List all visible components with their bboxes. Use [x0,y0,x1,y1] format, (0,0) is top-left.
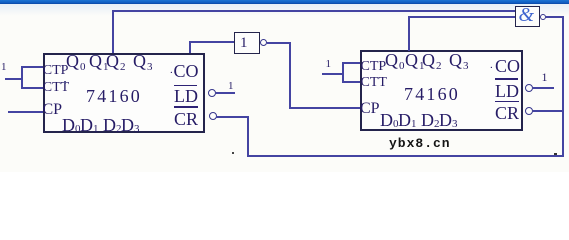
pin CTP U1 [43,64,69,78]
wire [5,78,23,80]
bubble LD U2 [525,84,533,92]
node 1 input label (right chip ENP/ENT) [326,59,332,70]
wire CO region of U1 up to buffer input [189,41,191,53]
wire [342,62,344,83]
pin Q0 U2 [385,51,398,69]
wire bottom rail [247,155,564,157]
buffer gate 1 [234,32,260,54]
wire down to right CP [289,42,291,108]
node 1 on LD of U1 [228,81,234,92]
wire Q2 of U1 up to top rail [112,10,114,53]
pin LD U2 (active low) [495,78,518,80]
title bar [0,0,569,4]
wire [342,62,361,64]
pin D0 U1 [62,116,75,134]
pin Q0 U1 [66,52,79,70]
bubble LD U1 [208,89,216,97]
wire [322,73,343,75]
wire buffer out [267,42,291,44]
wire [342,81,361,83]
pin CR U1 (active low) [174,106,198,108]
wire LD U2 stub [533,87,554,89]
pin CR U2 (active low) [495,101,519,103]
stray dot artifacts [232,152,234,154]
pin CP U2 [360,101,380,117]
pin Q1 U1 [89,52,102,70]
watermark ybx8.cn [389,137,451,150]
node 1 input label (left chip ENP/ENT) [1,62,7,73]
wire Q1 of U2 up to AND gate input 2 [408,16,410,51]
pin CO U2 [495,57,520,75]
wire [408,16,516,18]
pin CO U1 [174,62,199,80]
wire top rail to AND gate input 1 [112,10,515,12]
node 1 on LD of U2 [542,71,548,83]
wire [247,116,249,157]
pin D3 U1 [121,116,134,134]
bubble NAND output [540,14,546,20]
IC U1 74160 box [43,53,205,133]
pin Q2 U2 [422,51,435,69]
wire CP input left chip [8,111,43,113]
wire [189,41,234,43]
pin D3 U2 [439,111,452,129]
wire [21,87,43,89]
pin Q1 U2 [405,51,418,69]
wire [21,66,43,68]
wire to CP of U2 [289,107,360,109]
NAND gate & [515,6,540,27]
pin D2 U1 [103,116,116,134]
pin CTT U2 [361,76,387,90]
label 74160 U1 [86,87,142,105]
pin D1 U2 [398,111,411,129]
pin D0 U2 [380,111,393,129]
pin D1 U1 [80,116,93,134]
wire CR U2 to right rail [533,110,563,112]
pin CTT U1 [43,81,69,95]
wire down right side [562,16,564,157]
pin LD U1 (active low) [174,85,197,87]
pin CP U1 [43,102,63,118]
bubble buffer output [260,39,267,46]
pin CTP U2 [361,60,387,74]
bubble CR U2 [525,107,533,115]
pin D2 U2 [421,111,434,129]
wire NAND out [546,16,563,18]
wire [21,66,23,89]
pin Q3 U1 [133,52,146,70]
bubble CR U1 [209,112,217,120]
IC U2 74160 box [360,50,523,132]
pin Q3 U2 [449,51,462,69]
wire LD U1 stub [216,92,235,94]
label 74160 U2 [404,85,460,103]
wire CR U1 to bottom rail [216,116,249,118]
pin Q2 U1 [106,52,119,70]
